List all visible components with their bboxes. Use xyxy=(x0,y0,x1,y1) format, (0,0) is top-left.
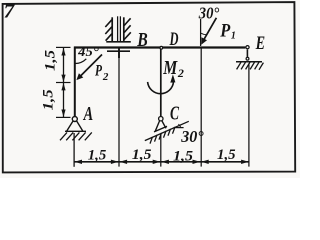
extension line below E xyxy=(248,64,250,167)
30 deg arc at P1 xyxy=(201,33,207,35)
extension line below C xyxy=(160,134,162,167)
support C triangle xyxy=(154,121,167,132)
moment M2 arc xyxy=(148,82,174,94)
support C inclined ground line xyxy=(145,121,189,140)
ground hatches at E xyxy=(237,62,264,70)
svg-text:2: 2 xyxy=(102,71,109,83)
svg-text:30°: 30° xyxy=(180,127,204,146)
svg-text:1,5: 1,5 xyxy=(173,148,194,164)
support C hatches xyxy=(150,127,175,144)
force P1 line xyxy=(204,18,217,40)
left dimension extension ticks xyxy=(56,47,71,117)
30 deg horizontal tick at C xyxy=(174,127,184,129)
support B right hatches xyxy=(124,18,131,39)
left dimension line xyxy=(63,48,65,117)
30 deg small arc at C xyxy=(178,124,180,127)
svg-text:30°: 30° xyxy=(198,4,220,23)
svg-text:P: P xyxy=(219,21,230,42)
moment M2 arrowhead xyxy=(170,74,175,82)
svg-text:7: 7 xyxy=(4,1,16,23)
node D junction dot xyxy=(160,46,163,49)
support B right wall xyxy=(123,17,125,41)
svg-text:B: B xyxy=(137,29,148,51)
left dimension arrowheads xyxy=(61,48,65,117)
left column (corner to A) xyxy=(74,47,76,117)
45 deg arc xyxy=(75,59,86,64)
support B left hatches xyxy=(105,20,112,41)
force P2 arrowhead xyxy=(76,73,83,80)
support B rod double line xyxy=(117,16,119,41)
member D to C xyxy=(160,49,162,117)
svg-text:E: E xyxy=(255,33,265,54)
svg-text:1,5: 1,5 xyxy=(132,147,152,163)
svg-text:D: D xyxy=(169,29,179,50)
force P2 line xyxy=(80,55,102,77)
bottom dimension line xyxy=(74,161,250,163)
link rod at E xyxy=(246,50,248,58)
support B sleeve lower line xyxy=(107,50,130,52)
border frame xyxy=(3,2,296,172)
pin C circle xyxy=(159,117,163,121)
extension line below B xyxy=(118,52,120,167)
P1 vertical reference line xyxy=(200,19,202,46)
svg-text:M: M xyxy=(163,57,179,79)
svg-text:A: A xyxy=(82,104,93,125)
svg-text:45°: 45° xyxy=(77,44,99,59)
slider rod stub below beam at B xyxy=(118,48,120,58)
svg-text:2: 2 xyxy=(177,66,184,80)
force P1 arrowhead xyxy=(201,37,207,45)
svg-text:1,5: 1,5 xyxy=(88,148,107,164)
support B slot bottom line xyxy=(106,41,131,43)
svg-text:P: P xyxy=(95,63,102,80)
beam corner-B-D-E (horizontal member) xyxy=(74,46,245,48)
pin support A circle xyxy=(72,117,77,122)
support A ground hatches xyxy=(60,132,92,140)
svg-text:1,5: 1,5 xyxy=(40,89,56,111)
svg-text:1,5: 1,5 xyxy=(42,49,58,71)
svg-text:C: C xyxy=(170,103,180,124)
ground line at E xyxy=(236,61,262,63)
extension line below P1 point xyxy=(200,49,202,167)
svg-text:1,5: 1,5 xyxy=(217,147,236,163)
support A triangle xyxy=(65,121,86,132)
pin E bottom circle xyxy=(246,57,249,60)
bottom dimension arrowheads xyxy=(75,160,249,164)
pin E top circle xyxy=(246,46,249,49)
svg-text:1: 1 xyxy=(231,30,236,41)
support B left wall xyxy=(111,17,113,41)
extension line below A xyxy=(73,133,75,167)
